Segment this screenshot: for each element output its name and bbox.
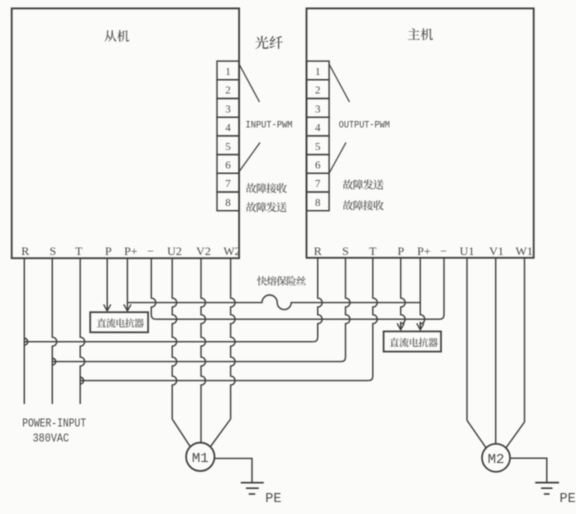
svg-text:3: 3: [315, 103, 321, 115]
svg-text:PE: PE: [265, 492, 281, 507]
svg-text:7: 7: [315, 178, 321, 190]
svg-text:P+: P+: [124, 244, 138, 258]
svg-text:V2: V2: [196, 244, 211, 258]
svg-text:2: 2: [225, 85, 231, 97]
svg-text:PE: PE: [560, 492, 576, 507]
svg-text:R: R: [314, 244, 322, 258]
svg-text:P: P: [398, 244, 405, 258]
svg-text:W1: W1: [516, 244, 533, 258]
svg-text:−: −: [440, 244, 447, 258]
svg-text:POWER-INPUT: POWER-INPUT: [22, 418, 86, 431]
svg-text:5: 5: [225, 141, 231, 153]
svg-text:S: S: [49, 244, 56, 258]
svg-text:R: R: [21, 244, 29, 258]
svg-text:M2: M2: [488, 452, 505, 468]
svg-text:380VAC: 380VAC: [33, 432, 70, 445]
svg-text:4: 4: [315, 122, 321, 134]
svg-text:−: −: [147, 244, 154, 258]
svg-text:2: 2: [315, 85, 321, 97]
svg-text:U1: U1: [460, 244, 475, 258]
svg-text:OUTPUT-PWM: OUTPUT-PWM: [339, 119, 390, 131]
svg-text:U2: U2: [167, 244, 182, 258]
svg-text:V1: V1: [489, 244, 504, 258]
svg-text:8: 8: [225, 197, 231, 209]
svg-text:INPUT-PWM: INPUT-PWM: [246, 119, 293, 131]
svg-text:M1: M1: [192, 451, 209, 467]
svg-text:1: 1: [225, 66, 231, 78]
svg-text:T: T: [75, 244, 83, 258]
svg-text:P+: P+: [417, 244, 431, 258]
svg-text:P: P: [105, 244, 112, 258]
svg-text:S: S: [342, 244, 349, 258]
svg-text:7: 7: [225, 178, 231, 190]
svg-text:6: 6: [315, 160, 321, 172]
svg-text:5: 5: [315, 141, 321, 153]
svg-text:8: 8: [315, 197, 321, 209]
svg-text:6: 6: [225, 160, 231, 172]
svg-text:T: T: [369, 244, 377, 258]
svg-text:4: 4: [225, 122, 231, 134]
svg-text:3: 3: [225, 103, 231, 115]
svg-text:1: 1: [315, 66, 321, 78]
svg-text:W2: W2: [223, 244, 240, 258]
